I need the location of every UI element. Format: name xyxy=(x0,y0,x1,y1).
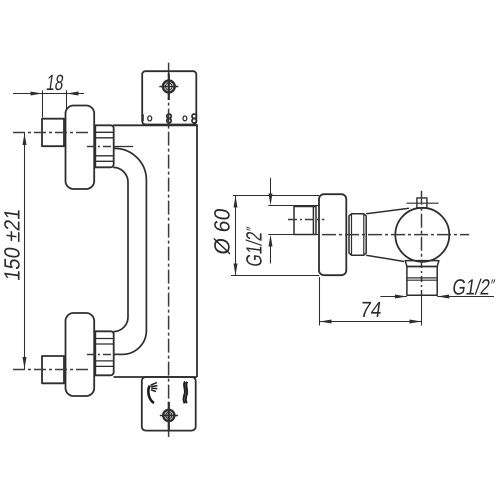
ball vertical centerline xyxy=(421,191,423,262)
side view main axis centerline xyxy=(322,234,469,236)
svg-text:G1/2″: G1/2″ xyxy=(242,225,267,268)
upper union axis centerline xyxy=(87,146,114,148)
side view: G1/2 (wall) dimension xyxy=(268,178,319,264)
outlet nipple xyxy=(407,267,437,296)
wave icon (bottom plate right) xyxy=(184,381,188,403)
side view: diameter 60 extension lines xyxy=(231,196,319,276)
dimension 18 xyxy=(13,90,84,117)
side view stub axis centerline xyxy=(288,219,324,221)
dimension 150 +-21 xyxy=(24,133,26,369)
screw (bottom plate) xyxy=(160,402,178,431)
wall bracket (top plate) xyxy=(142,71,196,124)
svg-text:18: 18 xyxy=(45,70,65,95)
lower wall axis centerline xyxy=(13,369,90,371)
body right edge xyxy=(196,124,198,377)
body bottom edge xyxy=(114,376,198,378)
cone adapter to thermostat ball xyxy=(366,208,409,214)
body top edge xyxy=(113,124,197,126)
svg-text:150 ±21: 150 ±21 xyxy=(0,207,24,282)
front view vertical centerline xyxy=(168,63,170,437)
svg-text:G1/2″: G1/2″ xyxy=(451,275,497,300)
screw (top plate) xyxy=(159,74,178,101)
svg-text:74: 74 xyxy=(359,297,383,322)
side view escutcheon flange xyxy=(319,194,346,275)
upper wall thread square xyxy=(42,119,64,147)
spray icon (bottom plate left) xyxy=(148,383,157,403)
svg-text:Ø 60: Ø 60 xyxy=(210,207,235,256)
lower escutcheon flange xyxy=(66,313,95,396)
G1/2 (outlet) dimension xyxy=(381,296,495,298)
mounting holes row (top plate) xyxy=(143,114,197,123)
upper escutcheon flange xyxy=(66,106,95,190)
lower union axis centerline xyxy=(87,354,124,356)
upper wall axis centerline xyxy=(13,132,90,134)
side view union nut xyxy=(349,214,366,255)
outlet collar xyxy=(405,261,439,267)
diameter 60 dimension line xyxy=(235,196,237,276)
knob on ball xyxy=(417,198,427,208)
lower union nut xyxy=(95,331,113,375)
upper union nut xyxy=(95,125,113,167)
thermostat ball xyxy=(395,208,449,262)
bend pipe outline xyxy=(113,167,128,331)
bottom plate xyxy=(142,377,196,431)
dimension 74 xyxy=(320,277,422,326)
side view wall stub square xyxy=(294,207,316,235)
lower wall thread square xyxy=(42,356,64,383)
